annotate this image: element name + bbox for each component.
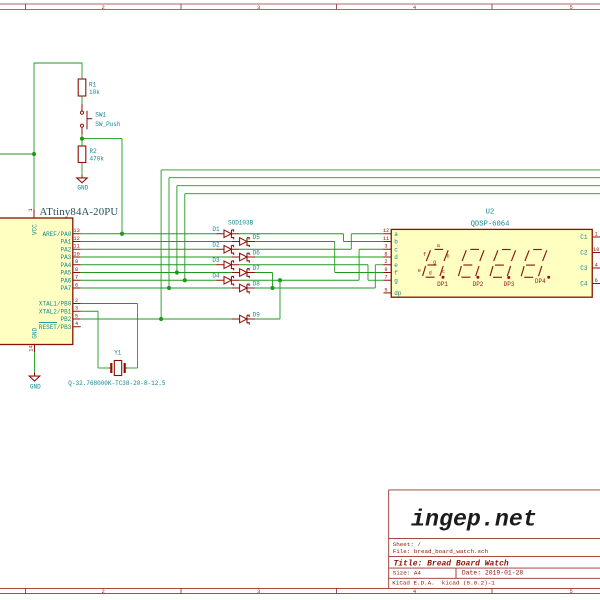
wire PB1 horizontal xyxy=(81,310,98,312)
U1 pin 12 PA1 xyxy=(60,236,80,246)
wire common net 4 vertical xyxy=(184,194,186,281)
wire D4 jog up xyxy=(358,249,360,280)
wire common net 1 vertical xyxy=(160,170,162,319)
wire D1 cathode run xyxy=(239,233,343,235)
pin 14 GND xyxy=(28,345,34,353)
svg-text:2: 2 xyxy=(102,4,105,11)
wire D2 cathode run xyxy=(239,248,351,250)
svg-text:5: 5 xyxy=(384,287,387,293)
svg-text:PA6: PA6 xyxy=(60,277,71,284)
svg-text:7: 7 xyxy=(75,275,78,281)
title block xyxy=(389,490,600,589)
svg-text:DP2: DP2 xyxy=(473,281,484,288)
svg-text:Size: A4: Size: A4 xyxy=(393,570,422,577)
svg-text:3: 3 xyxy=(257,588,260,595)
svg-text:dp: dp xyxy=(394,290,402,297)
svg-text:3: 3 xyxy=(75,306,78,312)
svg-text:VCC: VCC xyxy=(31,224,38,235)
U2 pin 10 C2 xyxy=(580,247,600,257)
decimal point DP2 dot xyxy=(476,276,479,279)
svg-text:12: 12 xyxy=(383,228,389,234)
svg-text:1: 1 xyxy=(28,208,34,211)
svg-text:3: 3 xyxy=(384,244,387,250)
diode D8 xyxy=(232,284,255,293)
7-segment digit DIG1 xyxy=(423,249,449,277)
svg-text:9: 9 xyxy=(384,267,387,273)
svg-text:2: 2 xyxy=(75,298,78,304)
svg-text:d: d xyxy=(429,270,432,276)
svg-text:7: 7 xyxy=(384,275,387,281)
svg-text:a: a xyxy=(437,243,440,249)
diode D3 xyxy=(216,261,239,270)
U2 pin 11 b xyxy=(383,236,398,246)
wire PA2 to D2 xyxy=(81,248,216,250)
svg-text:d: d xyxy=(394,254,398,261)
svg-text:1: 1 xyxy=(595,231,598,237)
wire PB0 horizontal xyxy=(81,303,138,305)
U1 pin 11 PA2 xyxy=(60,244,80,254)
svg-text:D3: D3 xyxy=(212,257,220,264)
U2 pin 4 C3 xyxy=(580,262,600,272)
wire D5 cathode run xyxy=(255,241,335,243)
svg-text:SW_Push: SW_Push xyxy=(95,121,121,128)
svg-text:8: 8 xyxy=(75,267,78,273)
junction D7/D8 junction xyxy=(270,286,274,290)
wire common net 4 horizontal xyxy=(185,193,600,195)
wire segment a feed xyxy=(351,233,383,235)
svg-text:D1: D1 xyxy=(212,226,220,233)
svg-text:U2: U2 xyxy=(486,209,495,217)
wire VCC vertical xyxy=(33,63,35,210)
U2 pin 9 f xyxy=(384,267,399,277)
wire common net 2 vertical xyxy=(168,178,170,288)
junction PA0 junction xyxy=(120,232,124,236)
svg-text:SOD103B: SOD103B xyxy=(228,219,254,226)
svg-text:g: g xyxy=(433,259,436,265)
wire D7 cathode run xyxy=(255,272,273,274)
U1 pin 3 XTAL2/PB1 xyxy=(39,306,81,316)
decimal point DP4 dot xyxy=(547,276,550,279)
svg-text:a: a xyxy=(394,231,398,238)
U1 pin 7 PA6 xyxy=(60,275,80,285)
diode D9 xyxy=(232,315,255,324)
U1 pin 9 PA4 xyxy=(60,259,80,269)
U1 pin 13 AREF/PA0 xyxy=(42,228,80,238)
U1 pin 5 PB2 xyxy=(60,313,80,323)
crystal Y1 xyxy=(109,361,128,376)
svg-text:DP1: DP1 xyxy=(437,281,448,288)
svg-text:D2: D2 xyxy=(212,242,220,249)
wire segment d feed (D6) xyxy=(255,256,384,258)
svg-text:D7: D7 xyxy=(253,265,261,272)
resistor R2 xyxy=(78,146,86,163)
svg-text:PA5: PA5 xyxy=(60,270,71,277)
svg-text:2: 2 xyxy=(102,588,105,595)
wire D8 jog up xyxy=(374,265,376,288)
svg-text:D9: D9 xyxy=(253,312,261,319)
svg-text:XTAL1/PB0: XTAL1/PB0 xyxy=(39,301,72,308)
wire segment e feed xyxy=(375,264,383,266)
wire PA5 to D7 xyxy=(81,272,232,274)
wire PA6 to D4 xyxy=(81,279,216,281)
U1 pin 2 XTAL1/PB0 xyxy=(39,298,81,308)
svg-text:c: c xyxy=(442,269,445,275)
svg-text:470k: 470k xyxy=(90,155,105,162)
wire D3 jog down xyxy=(367,265,369,281)
svg-text:12: 12 xyxy=(73,236,79,242)
U2 pin 8 d xyxy=(384,251,399,261)
U2 pin 12 a xyxy=(383,228,398,238)
svg-text:4: 4 xyxy=(75,321,78,327)
wire common net 3 horizontal xyxy=(177,185,600,187)
wire crystal right lead wire xyxy=(127,367,137,369)
svg-text:Y1: Y1 xyxy=(114,350,122,357)
wire common net 2 horizontal xyxy=(169,177,600,179)
IC U1 ATtiny84A-20PU body xyxy=(0,218,73,345)
svg-text:6: 6 xyxy=(595,278,598,284)
junction PB2 junction xyxy=(159,317,163,321)
svg-text:9: 9 xyxy=(75,259,78,265)
wire PB0 vertical to crystal xyxy=(137,304,139,369)
U1 pin 4 RESET/PB3 xyxy=(39,321,81,331)
svg-text:10: 10 xyxy=(593,247,599,253)
decimal point DP3 dot xyxy=(507,276,510,279)
svg-text:4: 4 xyxy=(595,262,598,268)
U2 pin 5 dp xyxy=(384,287,402,297)
7-segment digit DIG3 xyxy=(490,250,516,278)
svg-text:10: 10 xyxy=(73,251,79,257)
wire to R1 top xyxy=(34,62,82,64)
wire VCC rail from sheet edge xyxy=(0,153,34,155)
svg-text:RESET/PB3: RESET/PB3 xyxy=(39,324,72,331)
svg-text:ingep.net: ingep.net xyxy=(411,507,537,533)
svg-text:g: g xyxy=(394,277,398,284)
svg-text:8: 8 xyxy=(384,251,387,257)
U1 pin 8 PA5 xyxy=(60,267,80,277)
svg-text:3: 3 xyxy=(257,4,260,11)
U2 pin 3 c xyxy=(384,244,399,254)
wire button net horizontal xyxy=(82,138,122,140)
U2 pin 1 C1 xyxy=(580,231,600,241)
svg-text:PB2: PB2 xyxy=(60,316,71,323)
svg-text:e: e xyxy=(394,262,398,269)
svg-text:ATtiny84A-20PU: ATtiny84A-20PU xyxy=(40,206,119,218)
wire segment f feed xyxy=(335,272,384,274)
svg-text:14: 14 xyxy=(28,345,34,351)
wire segment b feed xyxy=(344,241,384,243)
wire R2 to GND xyxy=(81,163,83,175)
svg-text:GND: GND xyxy=(30,383,41,390)
svg-text:13: 13 xyxy=(73,228,79,234)
wire PB1 vertical to crystal xyxy=(97,311,99,368)
junction PA7 junction xyxy=(167,286,171,290)
U2 pin 6 C4 xyxy=(580,278,600,288)
diode D2 xyxy=(216,245,239,254)
junction PA6 junction xyxy=(183,278,187,282)
ground (R2) xyxy=(81,175,83,178)
switch SW1 xyxy=(80,104,92,135)
7-segment digit DIG2 xyxy=(458,249,484,277)
svg-text:f: f xyxy=(394,270,398,277)
resistor R1 xyxy=(78,79,86,96)
junction PA5 junction xyxy=(175,270,179,274)
wire chip GND wire xyxy=(34,352,36,372)
U2 pin 7 g xyxy=(384,275,399,285)
U2 pin 2 e xyxy=(384,259,399,269)
svg-text:C2: C2 xyxy=(580,250,588,257)
wire D7 drop to D8 net xyxy=(272,273,274,289)
wire D9 riser xyxy=(279,280,281,319)
junction SW1/R2 node xyxy=(80,137,84,141)
diode D7 xyxy=(232,269,255,278)
wire common net 1 horizontal xyxy=(161,169,600,171)
svg-text:f: f xyxy=(423,252,426,258)
svg-text:6: 6 xyxy=(75,282,78,288)
svg-text:XTAL2/PB1: XTAL2/PB1 xyxy=(39,308,72,315)
diode D6 xyxy=(232,253,255,262)
svg-text:b: b xyxy=(446,254,449,260)
svg-text:D5: D5 xyxy=(253,234,261,241)
svg-text:D6: D6 xyxy=(253,250,261,257)
svg-text:11: 11 xyxy=(73,244,79,250)
wire D2 jog up xyxy=(350,234,352,250)
wire SW1 to R2 xyxy=(81,135,83,146)
svg-text:2: 2 xyxy=(384,259,387,265)
svg-text:R1: R1 xyxy=(89,82,97,89)
svg-text:C4: C4 xyxy=(580,281,588,288)
decimal point DP1 dot xyxy=(442,276,445,279)
svg-text:C1: C1 xyxy=(580,234,588,241)
svg-text:R2: R2 xyxy=(90,148,98,155)
wire D3 cathode run xyxy=(239,264,368,266)
svg-text:QDSP-6064: QDSP-6064 xyxy=(471,220,510,228)
wire D1 jog down xyxy=(343,234,345,242)
svg-text:KiCad E.D.A. kicad (5.0.2)-1: KiCad E.D.A. kicad (5.0.2)-1 xyxy=(392,580,495,587)
svg-text:D8: D8 xyxy=(253,281,261,288)
wire PA4 to D3 xyxy=(81,264,216,266)
wire PA3 to D6 xyxy=(81,256,232,258)
diode D1 xyxy=(216,230,239,239)
diode D4 xyxy=(216,276,239,285)
wire crystal left lead wire xyxy=(98,367,109,369)
junction VCC rail junction xyxy=(32,152,36,156)
wire segment c feed xyxy=(359,248,383,250)
wire D4 cathode run xyxy=(239,279,359,281)
svg-text:GND: GND xyxy=(32,327,39,338)
svg-text:b: b xyxy=(394,239,398,246)
svg-text:PA7: PA7 xyxy=(60,285,71,292)
svg-text:PA2: PA2 xyxy=(60,246,71,253)
svg-text:10k: 10k xyxy=(89,89,100,96)
svg-text:e: e xyxy=(418,268,421,274)
svg-text:Date: 2019-01-28: Date: 2019-01-28 xyxy=(462,570,524,577)
wire PB2 to D9 xyxy=(81,318,232,320)
svg-text:DP3: DP3 xyxy=(504,281,515,288)
wire R1 top lead xyxy=(81,63,83,79)
wire R1 to SW1 xyxy=(81,96,83,104)
svg-text:5: 5 xyxy=(570,588,573,595)
svg-text:Title: Bread Board Watch: Title: Bread Board Watch xyxy=(394,559,509,568)
ground (U1) xyxy=(34,372,36,376)
wire segment g feed xyxy=(368,279,384,281)
diode D5 xyxy=(232,238,255,247)
svg-text:PA1: PA1 xyxy=(60,239,71,246)
junction D4/D9 junction xyxy=(278,278,282,282)
svg-text:Q-32.768000K-TC38-20-8-12.5: Q-32.768000K-TC38-20-8-12.5 xyxy=(68,380,166,387)
U1 pin 10 PA3 xyxy=(60,251,80,261)
7-segment digit DIG4 xyxy=(521,250,547,278)
svg-text:c: c xyxy=(394,246,398,253)
wire PA1 to D5 xyxy=(81,241,232,243)
svg-text:D4: D4 xyxy=(212,273,220,280)
svg-text:PA3: PA3 xyxy=(60,254,71,261)
wire D8 cathode run xyxy=(255,287,375,289)
display U2 QDSP-6064 body xyxy=(391,229,592,297)
svg-text:11: 11 xyxy=(383,236,389,242)
svg-text:File: bread_board_watch.sch: File: bread_board_watch.sch xyxy=(393,548,489,555)
svg-text:PA4: PA4 xyxy=(60,262,71,269)
svg-text:GND: GND xyxy=(77,185,88,192)
wire common net 3 vertical xyxy=(176,186,178,273)
svg-text:SW1: SW1 xyxy=(95,112,106,119)
wire PA7 to D8 xyxy=(81,287,232,289)
wire D9 cathode run xyxy=(255,318,280,320)
wire PA0 to D1 xyxy=(81,233,216,235)
pin 1 VCC xyxy=(28,208,34,218)
wire button net vertical to PA0 xyxy=(121,139,123,234)
svg-text:AREF/PA0: AREF/PA0 xyxy=(42,231,71,238)
U1 pin 6 PA7 xyxy=(60,282,80,292)
svg-text:C3: C3 xyxy=(580,265,588,272)
svg-text:5: 5 xyxy=(570,4,573,11)
wire D5 jog down xyxy=(334,242,336,273)
svg-text:DP4: DP4 xyxy=(535,278,546,285)
svg-text:5: 5 xyxy=(75,313,78,319)
